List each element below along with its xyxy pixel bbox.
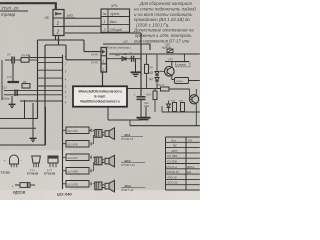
wire ribbon line 2 — [38, 61, 63, 63]
wire net A to right edge — [64, 17, 101, 19]
wire comp branch y58.7 — [107, 58, 142, 60]
wire net G y88.5 — [127, 88, 161, 90]
node XP2 label — [66, 14, 74, 18]
diode VD6 — [156, 54, 158, 72]
diode VD8 — [167, 104, 171, 108]
ground bar — [8, 81, 20, 83]
node label: top-left annotation — [1, 6, 20, 17]
resistor R6 — [7, 75, 13, 79]
transistor VT3 — [165, 67, 175, 77]
resistor R13 — [154, 89, 156, 91]
transistor VT4 — [189, 95, 198, 104]
connector Sh1-X40 label — [57, 192, 72, 197]
wire bus vertical left — [37, 40, 39, 119]
paper background — [0, 0, 200, 200]
resistor R12 — [161, 87, 170, 91]
plug jack 3 — [93, 183, 95, 185]
ground — [135, 59, 137, 72]
connector Sh1-X38 — [63, 170, 67, 172]
wire net C — [65, 32, 141, 34]
wire shield 2 — [0, 103, 36, 128]
resistor R8 — [146, 54, 148, 64]
node X8 X9 labels — [91, 53, 98, 64]
wire from XP2 pin2 down — [58, 36, 60, 46]
wire ribbon line 3 — [38, 69, 63, 71]
capacitor C9 — [132, 56, 134, 62]
wire PSU left vertical — [140, 33, 142, 97]
wire shield 1 — [0, 100, 38, 119]
wire ribbon line 5 — [38, 85, 63, 87]
wire net I y125.7 — [130, 125, 200, 127]
pin numbers — [64, 54, 67, 104]
wire shield 3 — [0, 107, 46, 145]
transistor pinout KT815 — [48, 156, 58, 163]
connector Sh1-X39 — [63, 183, 67, 185]
wire cap down — [12, 64, 14, 82]
plug jack 2 — [93, 157, 95, 171]
wire bend to XS3 pin2 — [66, 45, 101, 60]
wire net B to right edge — [64, 25, 101, 27]
wire ribbon line 1 — [29, 55, 63, 58]
wire XS3 down — [102, 72, 104, 86]
diode VD4 — [122, 57, 126, 61]
wire net F long y54 — [109, 53, 200, 55]
capacitor C15 — [15, 90, 17, 97]
resistor R5 — [21, 58, 29, 63]
label KT815 — [176, 62, 191, 67]
connector table S1 — [101, 9, 130, 32]
wire net E horizontal y45 — [45, 44, 66, 46]
wire: top thick bus — [0, 2, 56, 10]
diode pinout KD521 — [15, 184, 35, 186]
ground — [11, 96, 13, 104]
node XB — [44, 16, 50, 20]
board outline left — [1, 60, 3, 100]
resistor R15 — [173, 103, 177, 112]
wire ribbon line 6 — [4, 90, 63, 92]
ground — [137, 117, 146, 119]
capacitor C4 — [5, 59, 12, 61]
note: handwritten text block top-right — [133, 1, 196, 43]
connector Sh1-X36 — [63, 143, 67, 145]
connector XP2 — [53, 10, 64, 36]
wire ribbon line 4 — [38, 77, 63, 79]
transistor pinout KT315 — [10, 155, 19, 164]
capacitor C10 — [137, 96, 146, 98]
transistor pinout KT361 — [32, 156, 41, 163]
parts table — [166, 137, 200, 190]
connector XS3 — [101, 48, 107, 73]
connector Sh1-X35 — [63, 129, 67, 131]
wire ribbon line 8 — [20, 100, 63, 102]
ground — [145, 107, 147, 117]
connector Sh1-X37 — [63, 156, 67, 158]
board U2 outline — [103, 44, 150, 50]
wire from XP2 pin1 down — [55, 36, 57, 41]
wire net D horizontal y40 — [38, 39, 85, 41]
wire bend to XS3 pin1 — [84, 40, 101, 52]
wire bus vertical right — [44, 45, 46, 145]
wire ribbon line 7 — [4, 94, 63, 96]
watermark box — [73, 86, 127, 106]
scan grain — [0, 0, 200, 200]
plug jack 1 — [93, 130, 95, 143]
rectifier VD5 labels — [162, 44, 171, 50]
wire net H y112 — [162, 111, 200, 113]
loudspeaker BA2 — [105, 158, 109, 164]
regulator U — [175, 78, 189, 84]
loudspeaker BA3 — [105, 183, 109, 189]
resistor R16 — [181, 103, 185, 112]
ground — [32, 128, 34, 138]
wire rail vertical to jacks — [62, 55, 64, 189]
diode VD7 — [155, 78, 159, 82]
loudspeaker BA1 — [105, 131, 109, 137]
